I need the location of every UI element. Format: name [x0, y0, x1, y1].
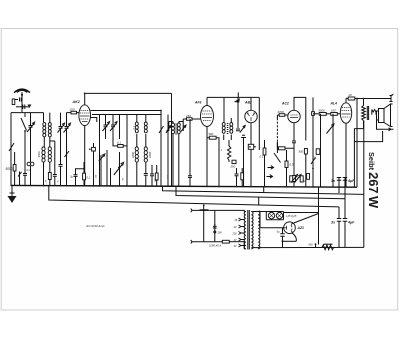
svg-text:4700: 4700 [278, 110, 285, 114]
trimmer capacitor T5 [110, 115, 117, 140]
resistor R3 [65, 150, 70, 186]
wire top bus AF3 [207, 96, 259, 98]
svg-text:0,1: 0,1 [117, 141, 121, 145]
resistor grid AC2 [277, 110, 287, 118]
dial lamps parallel pair [251, 212, 318, 220]
wire top mid bus [92, 114, 161, 116]
capacitor x236 bottom [235, 168, 239, 186]
svg-text:0,1: 0,1 [313, 156, 317, 160]
barretter lamp 2W [213, 210, 222, 241]
svg-text:1,25 0,25: 1,25 0,25 [286, 214, 297, 218]
capacitor x190 grid [188, 119, 192, 186]
wire y113.8 to AL4 [313, 113, 319, 115]
resistor 500 x306 [299, 149, 308, 187]
power transformer primary winding [210, 210, 246, 249]
wire screen [91, 118, 97, 123]
transformer core [248, 210, 250, 250]
wire x168 osc [166, 115, 171, 186]
transformer secondary HV winding [251, 212, 260, 249]
junction dot WS [315, 243, 317, 245]
wire HV tap stub [258, 197, 260, 206]
coil L7 big [131, 147, 138, 186]
pot arrow mid [114, 162, 124, 175]
tube AF3 [201, 97, 214, 136]
capacitor 2u x75 [69, 169, 84, 186]
wire x110 [110, 168, 112, 186]
resistor diag x161 [159, 122, 164, 186]
wire rail 2 [176, 186, 345, 199]
tube AB2 [245, 97, 257, 144]
svg-text:0,1: 0,1 [132, 125, 136, 129]
resistor box 30 near bus [154, 165, 159, 186]
bottom rail [251, 246, 364, 248]
svg-text:0,5: 0,5 [290, 163, 294, 167]
loudspeaker [377, 104, 393, 127]
svg-text:100: 100 [331, 109, 336, 113]
junction dot AK2 top [84, 93, 86, 95]
capacitor AC2 bottom [277, 141, 296, 187]
svg-text:Jm=0,93 Amp: Jm=0,93 Amp [86, 224, 105, 228]
capacitor C1 antenna series [12, 98, 21, 105]
svg-text:500: 500 [299, 150, 304, 154]
box 0,1 x318 [313, 149, 320, 160]
svg-text:0,1: 0,1 [260, 155, 264, 159]
svg-text:250: 250 [230, 165, 236, 169]
capacitors 3x 4uF lower [331, 199, 355, 248]
svg-text:20: 20 [348, 93, 353, 97]
resistor diag x313 [311, 97, 316, 186]
mains switch [200, 204, 209, 241]
svg-text:AK2: AK2 [72, 100, 80, 104]
resistor box 250 bottom [230, 160, 237, 168]
svg-text:AB2: AB2 [244, 101, 252, 105]
fuse box [209, 240, 244, 247]
wire feedback mid [91, 111, 162, 123]
resistor 250 AF3 grid [183, 114, 200, 120]
resistor zigzag x229 [228, 140, 231, 162]
wire top right drop [171, 93, 173, 186]
svg-text:AL4: AL4 [330, 102, 338, 106]
coil L3 big [37, 147, 45, 185]
trimmer x101 [99, 154, 105, 186]
svg-text:5000: 5000 [6, 167, 13, 171]
capacitor x152 [150, 165, 154, 186]
box below AB2 [248, 144, 256, 186]
pot arrow AL4 [321, 114, 335, 187]
switch S1 wave band [21, 113, 27, 146]
wire input top [11, 112, 44, 114]
wire x119 [119, 115, 121, 186]
capacitors 3x 4uF upper [331, 178, 355, 199]
coil L2 [48, 113, 51, 141]
electrolytic capacitor pair near bus [290, 175, 304, 183]
resistor 100 AL4 grid2 [331, 109, 341, 116]
box + arrow x294 near bus [293, 175, 301, 183]
resistor R1 left [9, 142, 14, 152]
capacitor under L8 [144, 174, 148, 186]
svg-text:4V: 4V [234, 245, 237, 248]
wire column x60 down [60, 146, 62, 164]
junction dots on bus [24, 185, 346, 188]
svg-text:3500: 3500 [37, 151, 41, 158]
mains line bottom [191, 240, 223, 244]
capacitor C5 small [59, 165, 63, 186]
resistor zigzag bottom [322, 244, 334, 250]
coil L5 [132, 115, 138, 148]
capacitor left 0,1 [23, 146, 31, 185]
coil L4 big [48, 141, 51, 172]
trimmer capacitor T4 [103, 115, 110, 140]
box 50 x308 [303, 174, 310, 184]
resistor diag row1 [18, 172, 22, 186]
transformer taps [232, 218, 245, 248]
arrow on bus [234, 92, 240, 102]
svg-text:AF3: AF3 [194, 101, 202, 105]
svg-text:220: 220 [232, 233, 238, 236]
terminal top right [390, 94, 394, 102]
wire rail 1 B+ [163, 186, 365, 194]
wire to band filter [43, 113, 45, 122]
wire x127 [126, 115, 128, 186]
svg-text:WS: WS [309, 243, 313, 247]
antenna [14, 89, 30, 112]
rectifier tube AZ1 [260, 214, 319, 242]
resistor box above AL4 [346, 93, 391, 100]
wire y141.6 [354, 129, 382, 142]
capacitor C4 [50, 141, 57, 186]
svg-text:4V: 4V [234, 226, 237, 229]
tube AL4 [340, 98, 351, 187]
wire x93 with box [89, 143, 95, 186]
wire x354 down [353, 142, 355, 188]
coil L8 big [144, 147, 152, 173]
wire transformer HV bottom to rail [258, 211, 260, 248]
svg-text:0,1: 0,1 [87, 176, 91, 180]
diode load arrow [236, 97, 245, 132]
wire rail 3 [49, 186, 339, 207]
oscillator coil T6 [167, 119, 187, 186]
resistor box 0,1 mid [113, 139, 127, 147]
coil L6 [144, 115, 147, 148]
wire top drop AB2 [258, 97, 260, 150]
tube AK2 [79, 93, 91, 185]
junction anode AK2 [160, 110, 162, 112]
IF transformer [222, 97, 233, 140]
svg-text:4V: 4V [234, 239, 237, 242]
svg-text:2µ: 2µ [69, 175, 73, 179]
resistor 500 below AF3 [207, 132, 219, 186]
wire speaker bottom [377, 120, 392, 129]
output transformer [354, 98, 376, 188]
resistor under L4 [48, 173, 51, 186]
svg-text:1885: 1885 [148, 151, 152, 158]
svg-text:5000: 5000 [319, 109, 326, 113]
coil antenna coupling [27, 146, 34, 185]
resistor box 0,1 x84 [83, 162, 91, 186]
svg-text:AZ1: AZ1 [297, 226, 305, 230]
trimmer capacitor T3 [64, 113, 71, 150]
mains line top [191, 209, 210, 213]
transformer secondary heater winding [251, 212, 253, 249]
resistor box 0,5 x286 [285, 150, 294, 187]
svg-text:250: 250 [185, 114, 191, 118]
wire left column [10, 113, 12, 186]
svg-text:4µF: 4µF [347, 221, 355, 225]
svg-text:4µF: 4µF [347, 179, 355, 183]
svg-text:0,9/0,45 A: 0,9/0,45 A [209, 243, 221, 247]
svg-text:1880: 1880 [131, 151, 135, 158]
ground symbol [8, 185, 17, 203]
wire output return [363, 121, 365, 248]
capacitor AB2 bottom left [241, 135, 246, 186]
trimmer capacitor T2 [58, 113, 65, 146]
terminal right mid [389, 128, 394, 131]
tube AC2 [288, 97, 306, 140]
resistor box x242 bottom [241, 168, 244, 186]
svg-text:5µ: 5µ [277, 230, 280, 234]
wire x107 [106, 150, 108, 186]
svg-text:AC2: AC2 [281, 102, 289, 106]
wire top bus AK2 [85, 92, 172, 94]
trimmer capacitor left [27, 113, 35, 146]
ground bus main [11, 185, 358, 187]
resistor box 0,1 x264 [260, 140, 266, 164]
svg-text:2W: 2W [217, 231, 223, 235]
resistor R2 value 5000 [6, 152, 17, 185]
wire x99 [99, 115, 101, 186]
capacitor C2 [16, 105, 32, 110]
svg-text:250: 250 [69, 108, 75, 112]
svg-text:500: 500 [209, 132, 214, 136]
switch blade AVC [274, 118, 281, 163]
capacitor 5uF filter [277, 228, 297, 248]
wire jog AB2 return [263, 187, 265, 193]
volume pot arrows [265, 164, 274, 187]
resistor 250 at AK2 grid [67, 108, 80, 114]
coil L1 [43, 123, 46, 148]
resistor 5000 AL4 grid [319, 109, 331, 116]
wire heater column [318, 187, 320, 245]
